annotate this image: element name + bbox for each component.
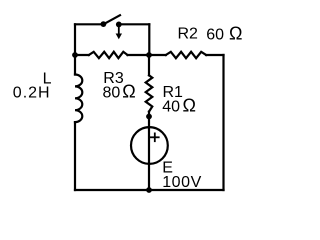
svg-text:100V: 100V xyxy=(162,174,202,191)
junction dot bottom xyxy=(146,187,152,193)
wire left vertical upper xyxy=(74,24,76,74)
svg-text:60Ω: 60Ω xyxy=(206,24,242,44)
node dot above source xyxy=(146,114,152,120)
wire left vertical lower xyxy=(74,122,76,190)
switch S1 blade xyxy=(103,15,120,24)
wire top-right segment xyxy=(119,23,150,25)
resistor R3 80ohm zigzag xyxy=(89,52,128,58)
wire R3 right lead xyxy=(128,54,150,56)
svg-text:40Ω: 40Ω xyxy=(162,96,196,116)
switch contact dot left xyxy=(101,21,107,27)
svg-text:R2: R2 xyxy=(178,26,199,43)
junction dot mid xyxy=(146,52,152,58)
wire R1 bottom lead through source xyxy=(148,112,150,190)
junction dot left mid xyxy=(72,52,78,58)
resistor R2 60ohm zigzag xyxy=(166,52,206,58)
wire top-left segment xyxy=(75,23,103,25)
wire R1 top lead xyxy=(148,55,150,75)
wire R2 right lead xyxy=(206,54,223,56)
wire bottom xyxy=(75,189,224,191)
wire R3 left lead xyxy=(75,54,89,56)
wire R2 left lead xyxy=(149,54,166,56)
wire switch-branch right vertical xyxy=(148,24,150,55)
resistor R1 40ohm zigzag xyxy=(146,75,153,111)
svg-text:0.2H: 0.2H xyxy=(13,85,51,102)
plus sign of source xyxy=(150,133,160,143)
switch arrow xyxy=(116,26,122,39)
inductor L 0.2H xyxy=(75,75,82,123)
wire right vertical xyxy=(222,55,224,190)
switch contact dot right xyxy=(116,22,122,28)
svg-text:80Ω: 80Ω xyxy=(103,82,136,102)
voltage source E circle xyxy=(131,127,168,164)
